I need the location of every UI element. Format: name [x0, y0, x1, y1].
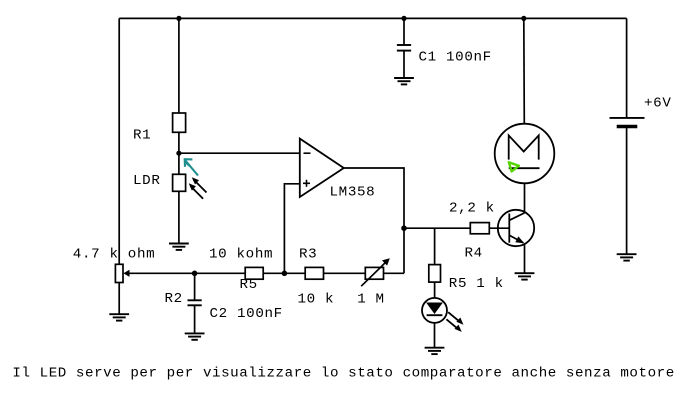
label C1 100nF	[419, 50, 492, 66]
diode LED D1	[422, 298, 447, 323]
ground below C2	[185, 333, 205, 339]
wire right rail to battery	[626, 18, 628, 118]
label R4	[465, 246, 483, 262]
wire LED to ground	[434, 323, 436, 348]
wire motor branch	[523, 18, 526, 123]
svg-text:R3: R3	[299, 247, 317, 263]
wire base row to R4	[404, 227, 470, 229]
svg-text:C2 100nF: C2 100nF	[210, 306, 283, 322]
svg-text:1 M: 1 M	[357, 291, 385, 307]
svg-text:10 k: 10 k	[298, 291, 335, 307]
wire R4 to transistor base	[489, 227, 509, 229]
label 10 k	[298, 291, 335, 307]
svg-text:C1 100nF: C1 100nF	[419, 50, 492, 66]
caption text	[12, 365, 675, 381]
label +6V	[644, 95, 672, 111]
wire non-inverting input	[284, 184, 300, 273]
node junction top rail / R1 branch	[176, 16, 181, 21]
label R2	[165, 291, 183, 307]
label 10 kohm	[209, 247, 273, 263]
label 1 M	[357, 291, 385, 307]
node junction top rail / motor branch	[521, 16, 526, 21]
svg-text:10 kohm: 10 kohm	[209, 247, 273, 263]
wire left rail down to potentiometer	[118, 18, 120, 265]
wire emitter to ground	[524, 244, 526, 274]
svg-text:Il LED serve per per visualizz: Il LED serve per per visualizzare lo sta…	[12, 365, 675, 381]
ground below C1	[394, 78, 414, 84]
ground below LED	[425, 348, 445, 354]
op-amp U1 LM358	[300, 139, 344, 197]
node junction non-inverting tap	[282, 271, 288, 277]
svg-text:LDR: LDR	[133, 173, 161, 189]
wire bottom row wiper line	[129, 272, 246, 274]
wire LDR to ground	[178, 191, 180, 243]
trimmer 1M	[361, 258, 390, 286]
label LM358	[330, 185, 376, 201]
wire top supply rail	[119, 17, 626, 19]
wire branch to R5 1k	[434, 228, 436, 264]
annotation light arrows into LDR	[189, 177, 207, 199]
label C2 100nF	[210, 306, 283, 322]
svg-text:R5 1 k: R5 1 k	[449, 276, 504, 292]
wire R1 to LDR	[178, 132, 180, 174]
label 2,2 k	[449, 201, 495, 217]
label R5 1 k	[449, 276, 504, 292]
resistor R5 10kohm	[245, 267, 263, 279]
ground below potentiometer	[109, 314, 129, 320]
svg-text:2,2 k: 2,2 k	[449, 201, 495, 217]
resistor R5 1k	[429, 265, 441, 283]
label R3	[299, 247, 317, 263]
label R1	[133, 128, 151, 144]
node junction output / base network	[401, 225, 407, 231]
photoresistor LDR	[173, 174, 186, 191]
annotation green arrow on motor	[509, 162, 519, 171]
wire C1 branch	[403, 18, 405, 45]
wire potentiometer to ground	[118, 283, 120, 315]
ground below battery	[617, 254, 637, 260]
label 4.7 k ohm	[73, 247, 155, 263]
transistor Q1	[498, 210, 534, 246]
node junction R2/C2 tap	[192, 271, 198, 277]
potentiometer P1 4.7k	[115, 264, 129, 282]
label LDR	[133, 173, 161, 189]
annotation light arrows out of LED	[446, 312, 463, 332]
ground below LDR	[169, 244, 189, 250]
svg-text:R1: R1	[133, 128, 151, 144]
svg-text:R5: R5	[240, 277, 258, 293]
label R5	[240, 277, 258, 293]
annotation teal arrow pointing at R1/LDR node	[185, 159, 198, 175]
svg-text:R2: R2	[165, 291, 183, 307]
node junction R1/LDR to op-amp inverting input	[176, 151, 181, 156]
svg-text:4.7 k ohm: 4.7 k ohm	[73, 247, 155, 263]
capacitor C2	[188, 300, 202, 305]
svg-text:LM358: LM358	[330, 185, 376, 201]
wire C1 to ground	[403, 51, 405, 78]
wire battery to ground	[626, 127, 628, 255]
ground below transistor	[515, 273, 535, 279]
battery B1	[610, 118, 645, 127]
wire inverting input	[179, 152, 300, 154]
resistor R3	[305, 267, 323, 279]
wire trimmer to output column	[384, 272, 405, 274]
wire motor to transistor collector	[524, 183, 526, 212]
wire 10kohm to R3	[263, 272, 305, 274]
wire R5 to LED	[434, 282, 436, 298]
node junction top rail / C1 branch	[401, 16, 406, 21]
resistor R4	[470, 223, 489, 234]
resistor R1	[173, 113, 186, 132]
svg-text:R4: R4	[465, 246, 483, 262]
wire op-amp output to feedback column	[344, 168, 404, 273]
svg-text:+6V: +6V	[644, 95, 672, 111]
wire R1 branch from top rail	[178, 18, 180, 113]
wire R3 to trimmer	[324, 272, 366, 274]
wire C2 to ground	[194, 305, 196, 333]
wire down to C2	[194, 273, 196, 300]
motor M1	[495, 124, 555, 184]
capacitor C1	[397, 45, 411, 51]
